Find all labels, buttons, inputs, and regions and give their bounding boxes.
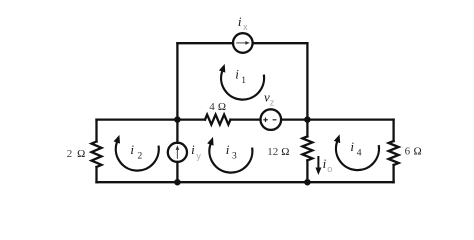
- current source ix arrow: [236, 41, 250, 45]
- svg-text:i: i: [350, 139, 354, 154]
- junction dot B (node top-right): [304, 116, 311, 123]
- wire iy upper: [176, 120, 178, 143]
- wire top-left segment: [177, 42, 233, 44]
- arrow i0: [315, 156, 321, 175]
- resistor R 2ohm zigzag: [92, 142, 102, 167]
- voltage source vz circle: [261, 109, 282, 130]
- svg-text:o: o: [327, 164, 332, 174]
- junction dot C (node bottom-left): [174, 179, 181, 186]
- svg-text:z: z: [270, 98, 275, 108]
- svg-text:i: i: [235, 67, 239, 82]
- svg-text:12: 12: [267, 146, 278, 158]
- wire iy lower: [176, 162, 178, 182]
- svg-text:x: x: [243, 22, 248, 32]
- svg-text:y: y: [196, 151, 201, 161]
- svg-text:i: i: [130, 142, 134, 157]
- mesh arrow i3: [207, 137, 252, 173]
- wire 12ohm lower: [306, 160, 308, 182]
- wire middle vz to junction: [281, 118, 307, 120]
- wire left edge upper: [95, 120, 97, 142]
- resistor R 4ohm zigzag: [205, 115, 230, 125]
- junction dot D (node bottom-right): [304, 179, 311, 186]
- wire left edge lower: [95, 167, 97, 182]
- svg-text:2: 2: [67, 148, 73, 160]
- current source iy circle: [168, 143, 187, 162]
- wire right edge upper: [392, 120, 394, 141]
- junction dot A (node top-left): [174, 116, 181, 123]
- svg-text:2: 2: [138, 151, 143, 161]
- svg-text:Ω: Ω: [218, 101, 226, 113]
- wire middle right segment: [307, 118, 393, 120]
- svg-text:Ω: Ω: [77, 148, 85, 160]
- current source iy arrow: [176, 145, 180, 158]
- voltage source vz minus sign: [273, 119, 277, 121]
- wire middle left segment: [97, 118, 206, 120]
- svg-text:i: i: [323, 156, 327, 171]
- svg-text:4: 4: [209, 101, 215, 113]
- wire right edge lower: [392, 165, 394, 182]
- svg-text:i: i: [238, 14, 242, 29]
- mesh arrow i2: [114, 135, 159, 171]
- wire 12ohm upper: [306, 120, 308, 137]
- svg-text:i: i: [191, 142, 195, 157]
- wire top mesh left vertical: [176, 43, 178, 119]
- svg-text:4: 4: [357, 148, 362, 158]
- wire top-right segment: [253, 42, 308, 44]
- wire bottom: [97, 181, 394, 183]
- svg-text:3: 3: [232, 151, 237, 161]
- mesh arrow i4: [334, 134, 379, 170]
- mesh arrow i1: [219, 64, 264, 100]
- svg-text:i: i: [226, 142, 230, 157]
- resistor R 6ohm zigzag: [389, 141, 399, 165]
- svg-text:6: 6: [405, 146, 411, 158]
- wire top mesh right vertical: [306, 43, 308, 119]
- current source ix circle: [233, 33, 253, 53]
- voltage source vz plus sign: [263, 118, 268, 123]
- svg-text:Ω: Ω: [414, 146, 422, 158]
- svg-text:Ω: Ω: [281, 146, 289, 158]
- svg-text:1: 1: [241, 76, 246, 86]
- resistor R 12ohm zigzag: [302, 136, 312, 160]
- wire middle between 4ohm and vz: [231, 118, 261, 120]
